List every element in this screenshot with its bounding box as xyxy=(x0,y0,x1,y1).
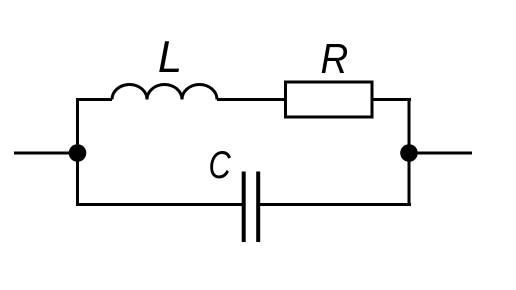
node dot left junction xyxy=(69,144,87,162)
resistor R xyxy=(286,82,373,117)
svg-text:L: L xyxy=(158,33,182,83)
wire top rail middle segment xyxy=(217,98,286,101)
wire bottom rail right segment xyxy=(258,203,411,206)
node dot right junction xyxy=(400,144,418,162)
wire top rail right segment xyxy=(372,98,411,101)
wire top rail left segment xyxy=(76,98,112,101)
label L xyxy=(158,33,182,83)
inductor L xyxy=(112,85,217,100)
svg-text:C: C xyxy=(208,143,231,186)
wire right terminal lead xyxy=(409,152,472,155)
wire bottom rail left segment xyxy=(76,203,244,206)
svg-text:R: R xyxy=(321,37,349,83)
wire left terminal lead xyxy=(14,152,72,155)
label C xyxy=(208,143,231,186)
label R xyxy=(321,37,349,83)
capacitor C left plate xyxy=(242,172,246,243)
wire right vertical branch xyxy=(408,98,411,206)
capacitor C right plate xyxy=(256,172,260,243)
wire left vertical branch xyxy=(76,98,79,206)
